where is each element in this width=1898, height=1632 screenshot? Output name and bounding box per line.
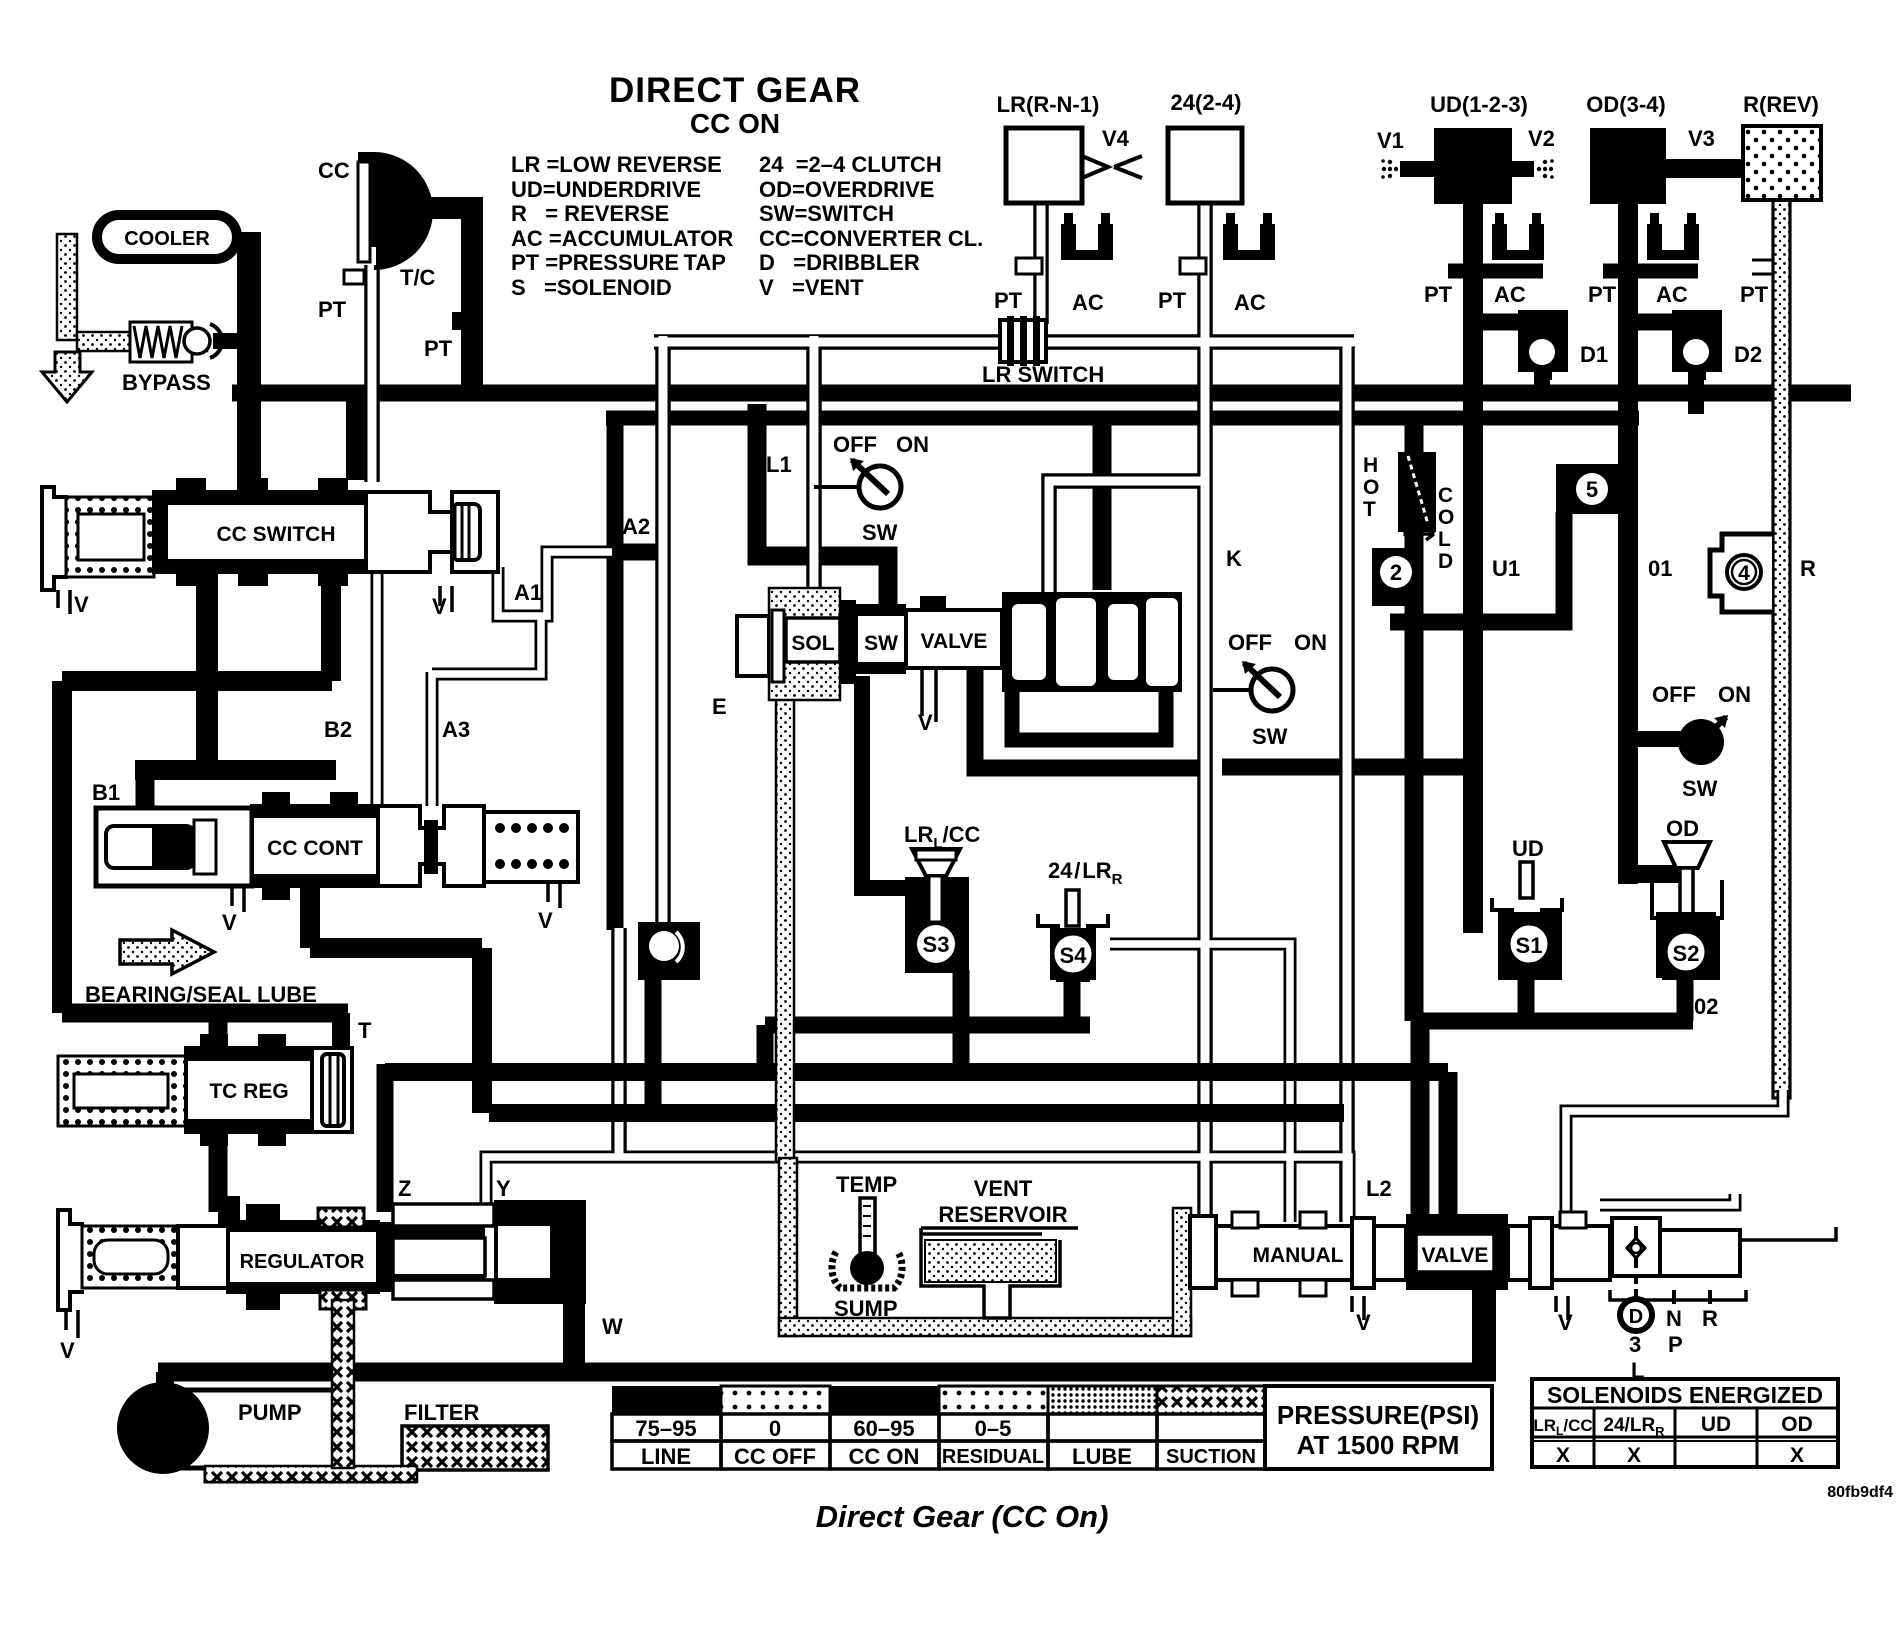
switch SW (OD, black, off-on) <box>1652 682 1751 801</box>
svg-text:L1: L1 <box>766 452 792 477</box>
svg-text:2: 2 <box>1390 560 1402 585</box>
svg-text:SOL: SOL <box>791 632 834 655</box>
wire cooler dotted down channel <box>57 234 77 340</box>
svg-text:A1: A1 <box>514 580 542 605</box>
regulator suction ports (crosshatch) <box>318 1208 364 1227</box>
LR switch symbol <box>982 316 1104 387</box>
wire R REV dotted pipe <box>1773 198 1790 1098</box>
CC switch left flange <box>42 487 68 590</box>
svg-text:SW: SW <box>862 520 898 545</box>
manual valve center land <box>1352 1218 1374 1288</box>
wire S3/S4 bus <box>765 1017 1090 1034</box>
sump tank left wall <box>779 1158 797 1336</box>
wire S1-S2 bottom bus <box>1420 1013 1693 1030</box>
manual valve body right <box>1508 1226 1610 1280</box>
svg-text:V: V <box>1558 1310 1573 1335</box>
piston pack <box>1002 592 1182 692</box>
wire CC switch to CC cont vertical <box>196 570 218 772</box>
wire T/C right trunk <box>428 208 472 400</box>
wire under-valve horizontal to K <box>975 668 1202 768</box>
svg-text:VALVE: VALVE <box>921 630 988 653</box>
svg-text:D =DRIBBLER: D =DRIBBLER <box>759 250 920 275</box>
accumulator AC (OD) <box>1647 213 1699 260</box>
legend column 1 <box>511 152 733 300</box>
pressure psi box <box>1265 1386 1492 1469</box>
TC reg spring chamber <box>58 1056 186 1126</box>
svg-text:V =VENT: V =VENT <box>759 275 864 300</box>
svg-text:V: V <box>538 908 553 933</box>
wire UD PT crossbar <box>1448 264 1543 279</box>
wire B2 pipe <box>371 572 384 806</box>
svg-text:AC: AC <box>1072 290 1104 315</box>
svg-text:PUMP: PUMP <box>238 1400 302 1425</box>
wire B1 horizontal <box>135 760 336 780</box>
svg-text:Y: Y <box>496 1176 511 1201</box>
wire 24 clutch pipe K <box>1197 200 1213 1222</box>
wire O1 to right SW <box>1628 731 1682 747</box>
wire CC cont bottom drop <box>300 886 320 948</box>
svg-text:SW: SW <box>1682 776 1718 801</box>
svg-text:V4: V4 <box>1102 126 1130 151</box>
wire mid bus C <box>385 1063 1448 1081</box>
svg-text:0–5: 0–5 <box>975 1416 1012 1441</box>
wire valve piston feed <box>1093 418 1112 590</box>
svg-text:D1: D1 <box>1580 342 1608 367</box>
svg-text:AC: AC <box>1656 282 1688 307</box>
svg-text:BEARING/SEAL LUBE: BEARING/SEAL LUBE <box>85 982 317 1007</box>
wire TC REG right drop (T port) <box>332 1013 350 1052</box>
wire V-C pipe to manual valve <box>1339 346 1355 1222</box>
VALVE label box <box>1416 1234 1494 1272</box>
svg-text:UD: UD <box>1512 836 1544 861</box>
svg-text:S =SOLENOID: S =SOLENOID <box>511 275 672 300</box>
svg-text:OFF: OFF <box>1652 682 1696 707</box>
wire O1 into S2 <box>1628 865 1680 883</box>
vent V left <box>58 590 89 617</box>
wire S1 drop <box>1518 980 1535 1021</box>
bypass spring valve <box>122 322 222 395</box>
svg-text:N: N <box>1666 1306 1682 1331</box>
wire CC switch stub to lube wire <box>321 586 341 681</box>
svg-text:UD=UNDERDRIVE: UD=UNDERDRIVE <box>511 177 701 202</box>
wire thermo vertical <box>1405 418 1424 1021</box>
svg-text:75–95: 75–95 <box>635 1416 696 1441</box>
wire left lube horizontal <box>62 671 332 691</box>
wire D1 top bar <box>1482 314 1545 331</box>
svg-text:AT 1500 RPM: AT 1500 RPM <box>1297 1430 1460 1460</box>
check valve (dribbler) box <box>1612 1218 1660 1276</box>
vent V2 spray <box>1512 126 1555 179</box>
svg-text:L2: L2 <box>1366 1176 1392 1201</box>
svg-text:T: T <box>358 1018 372 1043</box>
torque converter T/C <box>318 152 436 290</box>
CC cont right spool <box>378 806 484 886</box>
PT stub on T/C trunk <box>424 312 468 361</box>
svg-text:UD(1-2-3): UD(1-2-3) <box>1430 92 1528 117</box>
pressure legend table <box>612 1386 1492 1469</box>
wire OD PT crossbar <box>1603 264 1698 279</box>
svg-text:R(REV): R(REV) <box>1743 92 1819 117</box>
svg-text:LINE: LINE <box>641 1444 691 1469</box>
thermometer TEMP <box>832 1172 902 1321</box>
svg-text:BYPASS: BYPASS <box>122 370 211 395</box>
wire S3 drop to bus C <box>953 970 970 1072</box>
svg-text:PT: PT <box>424 336 453 361</box>
regulator body <box>178 1226 230 1288</box>
svg-text:S4: S4 <box>1060 943 1088 968</box>
CC cont body <box>252 806 378 886</box>
svg-text:P: P <box>1668 1332 1683 1357</box>
vent V below valve <box>922 668 936 722</box>
regulator center land (Z port) <box>376 1222 393 1292</box>
wire under-piston U loop <box>1012 680 1166 740</box>
PT stub on CC pipe <box>318 270 364 322</box>
regulator right end block <box>494 1200 586 1304</box>
wire valve top channel to K <box>1049 481 1205 592</box>
R REV box (residual, dotted) <box>1743 126 1821 200</box>
wire A1 staircase channel <box>498 552 612 616</box>
svg-text:LR SWITCH: LR SWITCH <box>982 362 1104 387</box>
svg-text:K: K <box>1226 546 1242 571</box>
svg-text:CC ON: CC ON <box>690 108 780 139</box>
CC switch body <box>154 492 366 572</box>
vent V4 <box>1082 126 1142 178</box>
svg-text:V: V <box>918 710 933 735</box>
regulator left flange <box>58 1210 84 1310</box>
wire TC REG top drop <box>209 1013 228 1056</box>
PT stub LR <box>1016 258 1042 274</box>
svg-text:VENT: VENT <box>974 1176 1033 1201</box>
pump rotor <box>117 1382 209 1474</box>
svg-text:V: V <box>432 594 447 619</box>
svg-text:SW: SW <box>1252 724 1288 749</box>
svg-text:VALVE: VALVE <box>1422 1244 1489 1267</box>
wire R line to valve <box>1566 1090 1783 1216</box>
svg-text:TEMP: TEMP <box>836 1172 897 1197</box>
wire Y line channel <box>486 1157 1349 1222</box>
wire main bus 1 <box>232 385 1851 402</box>
svg-text:S1: S1 <box>1516 933 1543 958</box>
suction riser from regulator <box>332 1300 354 1468</box>
svg-text:X: X <box>1790 1444 1804 1467</box>
24 clutch box <box>1168 128 1242 203</box>
svg-text:ON: ON <box>1294 630 1327 655</box>
svg-text:Direct Gear (CC On): Direct Gear (CC On) <box>816 1499 1109 1534</box>
svg-text:LUBE: LUBE <box>1072 1444 1132 1469</box>
svg-text:24 =2–4 CLUTCH: 24 =2–4 CLUTCH <box>759 152 942 177</box>
wire center black vertical (to checkball) <box>607 418 624 930</box>
svg-text:PT: PT <box>318 297 347 322</box>
solenoid S4 (24/LR) <box>1038 858 1123 980</box>
svg-text:COOLER: COOLER <box>124 228 210 250</box>
wire L1 pipe to SOL <box>806 336 822 592</box>
svg-text:W: W <box>602 1314 623 1339</box>
svg-text:CC SWITCH: CC SWITCH <box>217 523 336 546</box>
wire bus C drop to manual valve <box>1439 1072 1458 1222</box>
wire bottom main bus <box>158 1363 1496 1382</box>
wire bypass link to trunk <box>213 333 245 349</box>
svg-text:CC OFF: CC OFF <box>734 1444 816 1469</box>
wire bypass dotted channel <box>77 332 207 351</box>
svg-text:T: T <box>1363 498 1376 521</box>
wire S4 drop <box>1064 978 1081 1025</box>
black divider <box>840 600 856 684</box>
svg-text:RESIDUAL: RESIDUAL <box>942 1446 1044 1468</box>
svg-text:PT: PT <box>994 288 1023 313</box>
svg-text:OFF: OFF <box>833 432 877 457</box>
CC cont solenoid housing <box>96 808 252 886</box>
svg-text:DIRECT GEAR: DIRECT GEAR <box>609 71 861 110</box>
wire bus1 stub down to CC switch <box>346 400 368 480</box>
wire Z drop to regulator <box>377 1064 394 1212</box>
svg-text:L: L <box>1631 1358 1644 1383</box>
svg-text:80fb9df4: 80fb9df4 <box>1827 1484 1893 1501</box>
CC switch top port stubs <box>176 478 206 494</box>
manual valve top stubs <box>1232 1212 1258 1228</box>
svg-text:SUMP: SUMP <box>834 1296 898 1321</box>
svg-text:LR(R-N-1): LR(R-N-1) <box>997 92 1100 117</box>
svg-text:D: D <box>1438 550 1453 573</box>
svg-text:FILTER: FILTER <box>404 1400 479 1425</box>
svg-text:AC: AC <box>1494 282 1526 307</box>
dribbler D2 <box>1672 310 1762 380</box>
manual valve bottom stubs <box>1232 1280 1258 1296</box>
svg-text:SW: SW <box>864 632 898 655</box>
TC reg body <box>186 1048 312 1132</box>
svg-text:O: O <box>1363 476 1379 499</box>
regulator spring chamber <box>82 1226 178 1288</box>
wire S3 bus to mid bus C <box>757 1025 774 1072</box>
solenoid switch valve body <box>712 588 1182 735</box>
svg-text:0: 0 <box>769 1416 781 1441</box>
wire S bus drop to manual valve <box>1411 1021 1430 1222</box>
svg-text:3: 3 <box>1629 1332 1641 1357</box>
wire D1 bottom stub <box>1534 370 1550 392</box>
wire CC pipe from T/C to CC switch <box>364 168 380 482</box>
svg-text:CC CONT: CC CONT <box>267 837 363 860</box>
PT stub 24 <box>1180 258 1206 274</box>
svg-text:V: V <box>1356 1310 1371 1335</box>
svg-text:X: X <box>1627 1444 1641 1467</box>
svg-text:01: 01 <box>1648 556 1672 581</box>
manual valve right tail <box>1660 1230 1740 1276</box>
svg-text:AC: AC <box>1234 290 1266 315</box>
svg-text:R: R <box>1800 556 1816 581</box>
svg-text:REGULATOR: REGULATOR <box>240 1251 365 1273</box>
accumulator AC (24) <box>1223 213 1275 260</box>
svg-text:V1: V1 <box>1377 128 1404 153</box>
UD clutch box (applied, black) <box>1434 128 1512 204</box>
TC reg right spool <box>312 1048 352 1132</box>
CC cont spring chamber <box>484 812 578 882</box>
svg-text:U1: U1 <box>1492 556 1520 581</box>
vent V below valve right <box>1556 1296 1568 1320</box>
node 4 (circled in bracket) <box>1710 534 1772 612</box>
wire manual valve right thin rail <box>1600 1194 1735 1205</box>
svg-text:SOLENOIDS ENERGIZED: SOLENOIDS ENERGIZED <box>1547 1382 1823 1408</box>
wire U1 pipe (UD clutch line) <box>1463 200 1483 933</box>
checkball valve <box>638 922 700 980</box>
svg-text:PT: PT <box>1740 282 1769 307</box>
wire loop left vertical to checkball <box>655 336 671 924</box>
wire pump to bus <box>156 1372 174 1395</box>
switch SW (CC, off-on) <box>814 432 929 545</box>
svg-text:B2: B2 <box>324 717 352 742</box>
wire checkball down to bus D <box>645 978 662 1113</box>
solenoid S1 (UD) <box>1492 862 1562 980</box>
cooler <box>97 215 237 259</box>
node 2 (circled) <box>1372 548 1422 606</box>
bearing/seal lube arrow <box>85 930 317 1007</box>
manual valve body left <box>1216 1226 1406 1280</box>
wire S2 drop <box>1677 980 1694 1021</box>
manual valve black section <box>1406 1214 1508 1290</box>
svg-text:CC: CC <box>318 158 350 183</box>
switch SW (center, off-on) <box>1213 630 1327 749</box>
svg-text:PT: PT <box>1424 282 1453 307</box>
svg-text:S3: S3 <box>923 932 950 957</box>
svg-text:PT: PT <box>1158 288 1187 313</box>
LR clutch box <box>1006 128 1082 203</box>
vent V below manual <box>1352 1296 1364 1320</box>
dotted mount bracket <box>769 588 840 700</box>
svg-text:C: C <box>1438 484 1453 507</box>
wire TC REG to regulator <box>209 1130 228 1212</box>
svg-text:V2: V2 <box>1528 126 1555 151</box>
svg-text:PT: PT <box>1588 282 1617 307</box>
wire CC cont bottom horizontal <box>310 938 482 958</box>
detent D circle <box>1620 1299 1652 1331</box>
thermal valve element <box>1398 452 1436 540</box>
SW box <box>856 614 906 664</box>
legend column 2 <box>759 152 983 300</box>
wire channel below checkball <box>611 928 627 1158</box>
svg-text:SUCTION: SUCTION <box>1166 1446 1256 1468</box>
sump tank bottom wall <box>779 1318 1191 1336</box>
svg-text:UD: UD <box>1701 1413 1731 1436</box>
solenoid S2 (OD) <box>1652 842 1722 978</box>
dribbler D1 <box>1518 310 1608 380</box>
wire D2 bottom stub <box>1688 370 1704 414</box>
wire K to U1 horizontal <box>1222 759 1466 776</box>
svg-text:AC =ACCUMULATOR: AC =ACCUMULATOR <box>511 226 733 251</box>
svg-text:X: X <box>1556 1444 1570 1467</box>
svg-text:E: E <box>712 694 727 719</box>
wire mid bus D <box>489 1104 1344 1122</box>
vent V1 spray <box>1377 128 1434 179</box>
svg-text:V3: V3 <box>1688 126 1715 151</box>
wire SW valve to S3 feed <box>862 676 906 888</box>
wire A3 link channel <box>432 614 541 674</box>
svg-text:OD: OD <box>1666 816 1699 841</box>
VALVE box <box>906 610 1002 668</box>
wire B1 drop into CC cont <box>136 770 155 812</box>
svg-text:ON: ON <box>1718 682 1751 707</box>
svg-text:TC REG: TC REG <box>209 1080 288 1103</box>
accumulator AC (UD) <box>1492 213 1544 260</box>
svg-text:O: O <box>1438 506 1454 529</box>
suction pipe <box>205 1468 415 1482</box>
vent V right <box>432 586 452 619</box>
svg-text:OD(3-4): OD(3-4) <box>1586 92 1665 117</box>
svg-text:60–95: 60–95 <box>853 1416 914 1441</box>
wire SOL feed from bus <box>757 404 888 604</box>
wire TC REG feed horizontal <box>62 1004 348 1023</box>
svg-text:PT =PRESSURE TAP: PT =PRESSURE TAP <box>511 250 726 275</box>
CC switch right spool <box>366 492 498 572</box>
wire A2 stub <box>607 544 657 561</box>
svg-text:CC=CONVERTER CL.: CC=CONVERTER CL. <box>759 226 983 251</box>
wire manual valve bottom drop <box>1472 1280 1496 1372</box>
svg-text:OFF: OFF <box>1228 630 1272 655</box>
wire left tall vertical <box>52 681 72 1013</box>
svg-text:V: V <box>74 592 89 617</box>
wire drop to mid bus <box>472 948 492 1113</box>
wire LR switch channel horizontal <box>654 334 1354 350</box>
OD clutch box (applied, black) <box>1590 128 1666 204</box>
vent V below CC cont <box>222 886 244 935</box>
svg-text:ON: ON <box>896 432 929 457</box>
wire main bus 2 <box>606 411 1639 426</box>
bypass exit arrow <box>42 352 92 402</box>
svg-text:R = REVERSE: R = REVERSE <box>511 201 669 226</box>
wire 5 to U1 pipe <box>1484 512 1564 622</box>
vent V below spring <box>538 882 560 933</box>
svg-text:Z: Z <box>398 1176 411 1201</box>
svg-text:B1: B1 <box>92 780 120 805</box>
svg-text:L: L <box>1438 528 1451 551</box>
CC switch spring chamber <box>66 497 154 577</box>
wire O1 pipe (OD clutch line) <box>1618 200 1638 884</box>
svg-text:H: H <box>1363 454 1378 477</box>
CC cont top stubs <box>262 792 290 808</box>
filter element <box>402 1426 548 1470</box>
svg-text:D2: D2 <box>1734 342 1762 367</box>
wire 2-box to U1 pipe <box>1390 614 1484 631</box>
svg-text:MANUAL: MANUAL <box>1253 1244 1344 1267</box>
solenoid S3 (LR/CC) <box>904 822 981 973</box>
wire E dribbler channel to sump <box>776 694 794 1162</box>
node 5 (circled) <box>1556 464 1624 514</box>
svg-text:CC ON: CC ON <box>849 1444 920 1469</box>
manual valve right rail <box>1740 1227 1836 1240</box>
R PT stub <box>1752 260 1773 274</box>
svg-text:RESERVOIR: RESERVOIR <box>938 1202 1067 1227</box>
svg-text:R: R <box>1702 1306 1718 1331</box>
svg-text:OD: OD <box>1781 1413 1813 1436</box>
regulator right channels <box>393 1204 494 1226</box>
manual valve left flange <box>1190 1216 1216 1288</box>
wire checkball down to bus D (over channel) <box>645 978 662 1113</box>
left cap <box>737 616 769 676</box>
vent reservoir <box>921 1176 1078 1318</box>
svg-text:PRESSURE(PSI): PRESSURE(PSI) <box>1277 1400 1479 1430</box>
accumulator AC (LR) <box>1061 213 1113 260</box>
wire LR clutch pipe <box>1033 200 1049 324</box>
svg-text:LR =LOW REVERSE: LR =LOW REVERSE <box>511 152 722 177</box>
svg-text:D: D <box>1629 1306 1643 1328</box>
vent V3 stub <box>1666 126 1746 178</box>
svg-text:SW=SWITCH: SW=SWITCH <box>759 201 894 226</box>
wire D2 top bar <box>1637 314 1700 331</box>
svg-text:V: V <box>222 910 237 935</box>
wire W regulator drop <box>563 1292 585 1372</box>
svg-text:S2: S2 <box>1673 941 1700 966</box>
svg-text:4: 4 <box>1738 562 1750 585</box>
sump tank right wall <box>1173 1208 1191 1336</box>
wire A3 pipe <box>426 672 439 806</box>
svg-text:02: 02 <box>1694 994 1718 1019</box>
